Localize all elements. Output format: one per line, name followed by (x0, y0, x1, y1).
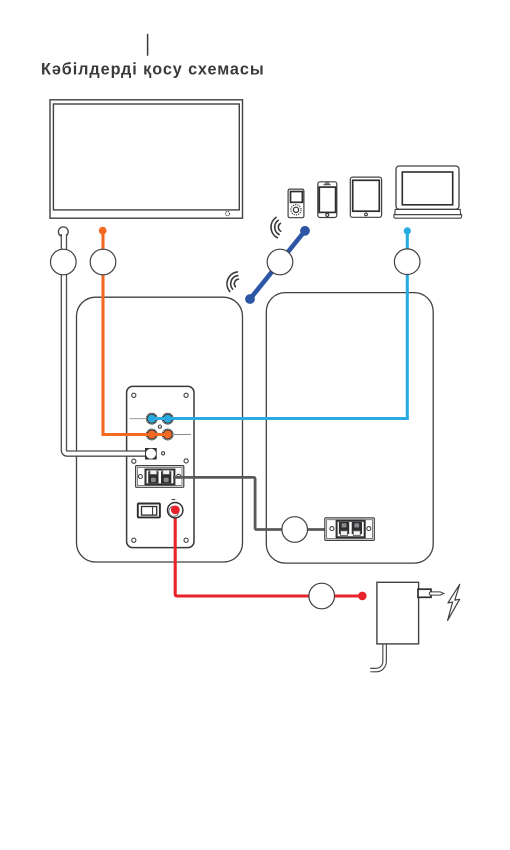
callout circle orange (90, 249, 116, 275)
adapter pigtail (370, 640, 384, 670)
optical cable plug at TV (58, 227, 68, 237)
tablet (350, 177, 381, 217)
europlug pin (429, 592, 444, 595)
callout circle bluetooth (267, 249, 293, 275)
plug mount (418, 589, 431, 597)
bluetooth link (250, 231, 305, 299)
orange cable tip (99, 227, 107, 235)
TV indicator (225, 212, 229, 216)
header tick line (147, 34, 149, 56)
RCA jack line R (162, 429, 174, 441)
callout circle cyan (394, 249, 420, 275)
callout circle speaker wire (282, 517, 308, 543)
RCA jack aux R (162, 413, 174, 425)
laptop (394, 166, 462, 218)
speaker wire (173, 477, 326, 529)
wireless waves top (271, 217, 281, 237)
power cable tip (358, 592, 367, 601)
svg-text:Кәбілдерді қосу схемасы: Кәбілдерді қосу схемасы (41, 60, 265, 78)
AC adapter body (377, 582, 419, 644)
bluetooth tip bottom (245, 294, 255, 304)
bluetooth tip top (300, 226, 310, 236)
wireless waves bottom (227, 272, 238, 292)
RCA jack line L (146, 429, 158, 441)
cyan cable (152, 231, 407, 419)
optical cable (64, 234, 148, 454)
panel screws (132, 393, 189, 542)
iPod body (288, 189, 304, 218)
power switch (138, 504, 160, 518)
callout circle power (309, 583, 335, 609)
optical input socket (145, 448, 157, 460)
smartphone (318, 182, 337, 218)
callout circle optical (51, 249, 77, 275)
RCA jack aux L (146, 413, 158, 425)
TV screen (53, 104, 239, 210)
TV outer frame (50, 100, 243, 218)
DC power jack (168, 503, 183, 518)
right speaker (266, 293, 433, 563)
speaker terminal block L (136, 466, 184, 488)
orange cable (103, 231, 168, 435)
power cable red (175, 510, 362, 596)
speaker terminal block R (325, 518, 375, 541)
jack flank lines (130, 418, 146, 420)
cyan cable tip (404, 227, 411, 234)
rear panel (127, 386, 194, 547)
lightning bolt (448, 584, 460, 620)
minus mark (172, 499, 176, 501)
left speaker (77, 297, 243, 562)
